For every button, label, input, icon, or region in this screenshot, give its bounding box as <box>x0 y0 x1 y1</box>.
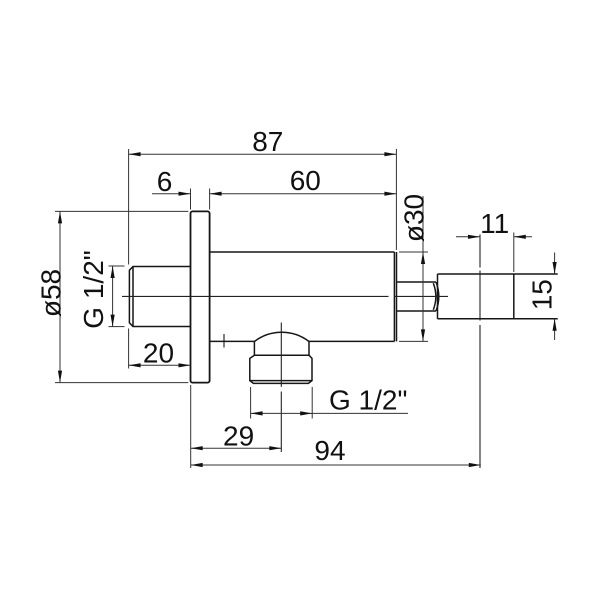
svg-text:87: 87 <box>252 126 283 157</box>
svg-text:G 1/2": G 1/2" <box>329 384 407 415</box>
svg-text:94: 94 <box>314 435 345 466</box>
outlet thread nipple (right stub) <box>397 282 439 311</box>
outlet centerline <box>280 323 282 453</box>
dimension 87 <box>129 149 397 265</box>
horizontal centerline <box>122 295 448 297</box>
hand shower holder end piece <box>438 274 558 319</box>
outlet hex nut <box>250 355 312 383</box>
svg-text:G 1/2": G 1/2" <box>78 250 109 328</box>
dimension 29 <box>191 385 282 468</box>
svg-text:60: 60 <box>290 165 321 196</box>
dimension dia30 <box>399 196 428 341</box>
dimension 20 <box>129 329 191 369</box>
inlet pipe G1/2 (left nipple) <box>129 267 190 327</box>
dimension 11 <box>456 233 532 273</box>
dimension 6 <box>152 189 210 210</box>
svg-text:11: 11 <box>480 208 509 239</box>
dimension 94 <box>191 464 481 466</box>
main body cylinder <box>210 252 397 341</box>
dimension 15 <box>554 253 556 341</box>
dimension G 1/2 inlet <box>109 266 125 327</box>
outlet boss dome <box>254 332 309 341</box>
holder centerline / 94 extension <box>479 235 481 469</box>
dimension G 1/2 outlet <box>251 387 408 419</box>
wall flange <box>191 211 210 382</box>
svg-text:ø58: ø58 <box>35 269 66 317</box>
svg-text:29: 29 <box>223 420 254 451</box>
dimension 60 <box>210 193 397 195</box>
svg-text:ø30: ø30 <box>398 194 429 242</box>
tick on body bottom edge <box>223 334 225 348</box>
svg-text:6: 6 <box>157 166 173 197</box>
outlet neck <box>254 342 309 356</box>
svg-text:15: 15 <box>527 279 558 310</box>
dimension dia58 <box>55 211 188 382</box>
svg-text:20: 20 <box>143 338 174 369</box>
